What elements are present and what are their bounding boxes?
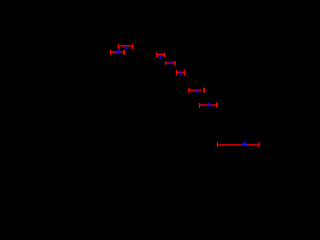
bond horizontal y=144.9 [218,144,260,146]
atom N (blue) at (209.1,104.6) [207,103,210,107]
bond vertical (C-N) at x=118.4 [117,44,119,49]
bond horizontal y=90.2 [189,89,202,91]
unit U2c: amide group [177,70,185,76]
bond horizontal (C-C=O) y=45.9 [118,45,131,47]
atom N (blue) at (197,90.7) [195,89,198,93]
atom N (blue, tall) at (181,73.2) [180,71,183,76]
unit U5: long bottom group [218,141,260,147]
atom O end bar x=124.0 [123,50,125,55]
bond red overlay across N [116,51,120,53]
atom O end bar x=165.7 [165,61,167,65]
unit U2b: amide group [166,61,175,66]
bond horizontal y=52.0 [111,51,123,53]
atom O end bar x=156.7 [156,52,158,57]
atom N (blue) on line at (170.6,62.8) [169,61,173,65]
atom O end bar x=184.5 [184,70,186,76]
atom O end bar x=199.6 [199,103,201,108]
atom O end bar x=164.4 [163,53,165,58]
unit U3: amide group [189,88,204,94]
atom O end bar x=204.0 [203,88,205,93]
unit U1a: upper amide group of cluster 1 [118,44,132,49]
bond red overlay across N [208,104,211,106]
atom O end bar x=259.0 [258,142,260,147]
atom N (blue circle) at (118.2,52.1) [116,50,121,55]
atom O end bar x=175.0 [174,61,176,66]
bond horizontal y=54.4 [157,53,165,55]
atom O end bar x=110.6 [110,50,112,55]
bond horizontal y=105.0 [200,104,216,106]
atom O end bar x=216.85 [216,103,218,108]
atom N (blue triangle) at (244.4,143.3) [241,141,247,145]
unit U2a: amide group [157,52,165,58]
atom N (blue) below line at (160.4,57.3) [159,55,163,58]
bond red overlay across N [169,62,172,64]
atom N (blue) at (126.6,47.8) [125,46,129,49]
bond red overlay across N [196,89,199,91]
bond horizontal y=62.9 [166,62,175,64]
unit U4: amide group [200,103,217,109]
unit U1b: lower amide group of cluster 1 [111,50,124,55]
bond horizontal y=72.4 [177,71,185,73]
bond red overlay across N [180,71,182,73]
atom O end bar x=188.9 [188,88,190,93]
atom O end bar x=176.6 [176,70,178,75]
atom O end bar x=132.4 [131,44,133,49]
atom O end bar x=217.5 [217,142,219,147]
